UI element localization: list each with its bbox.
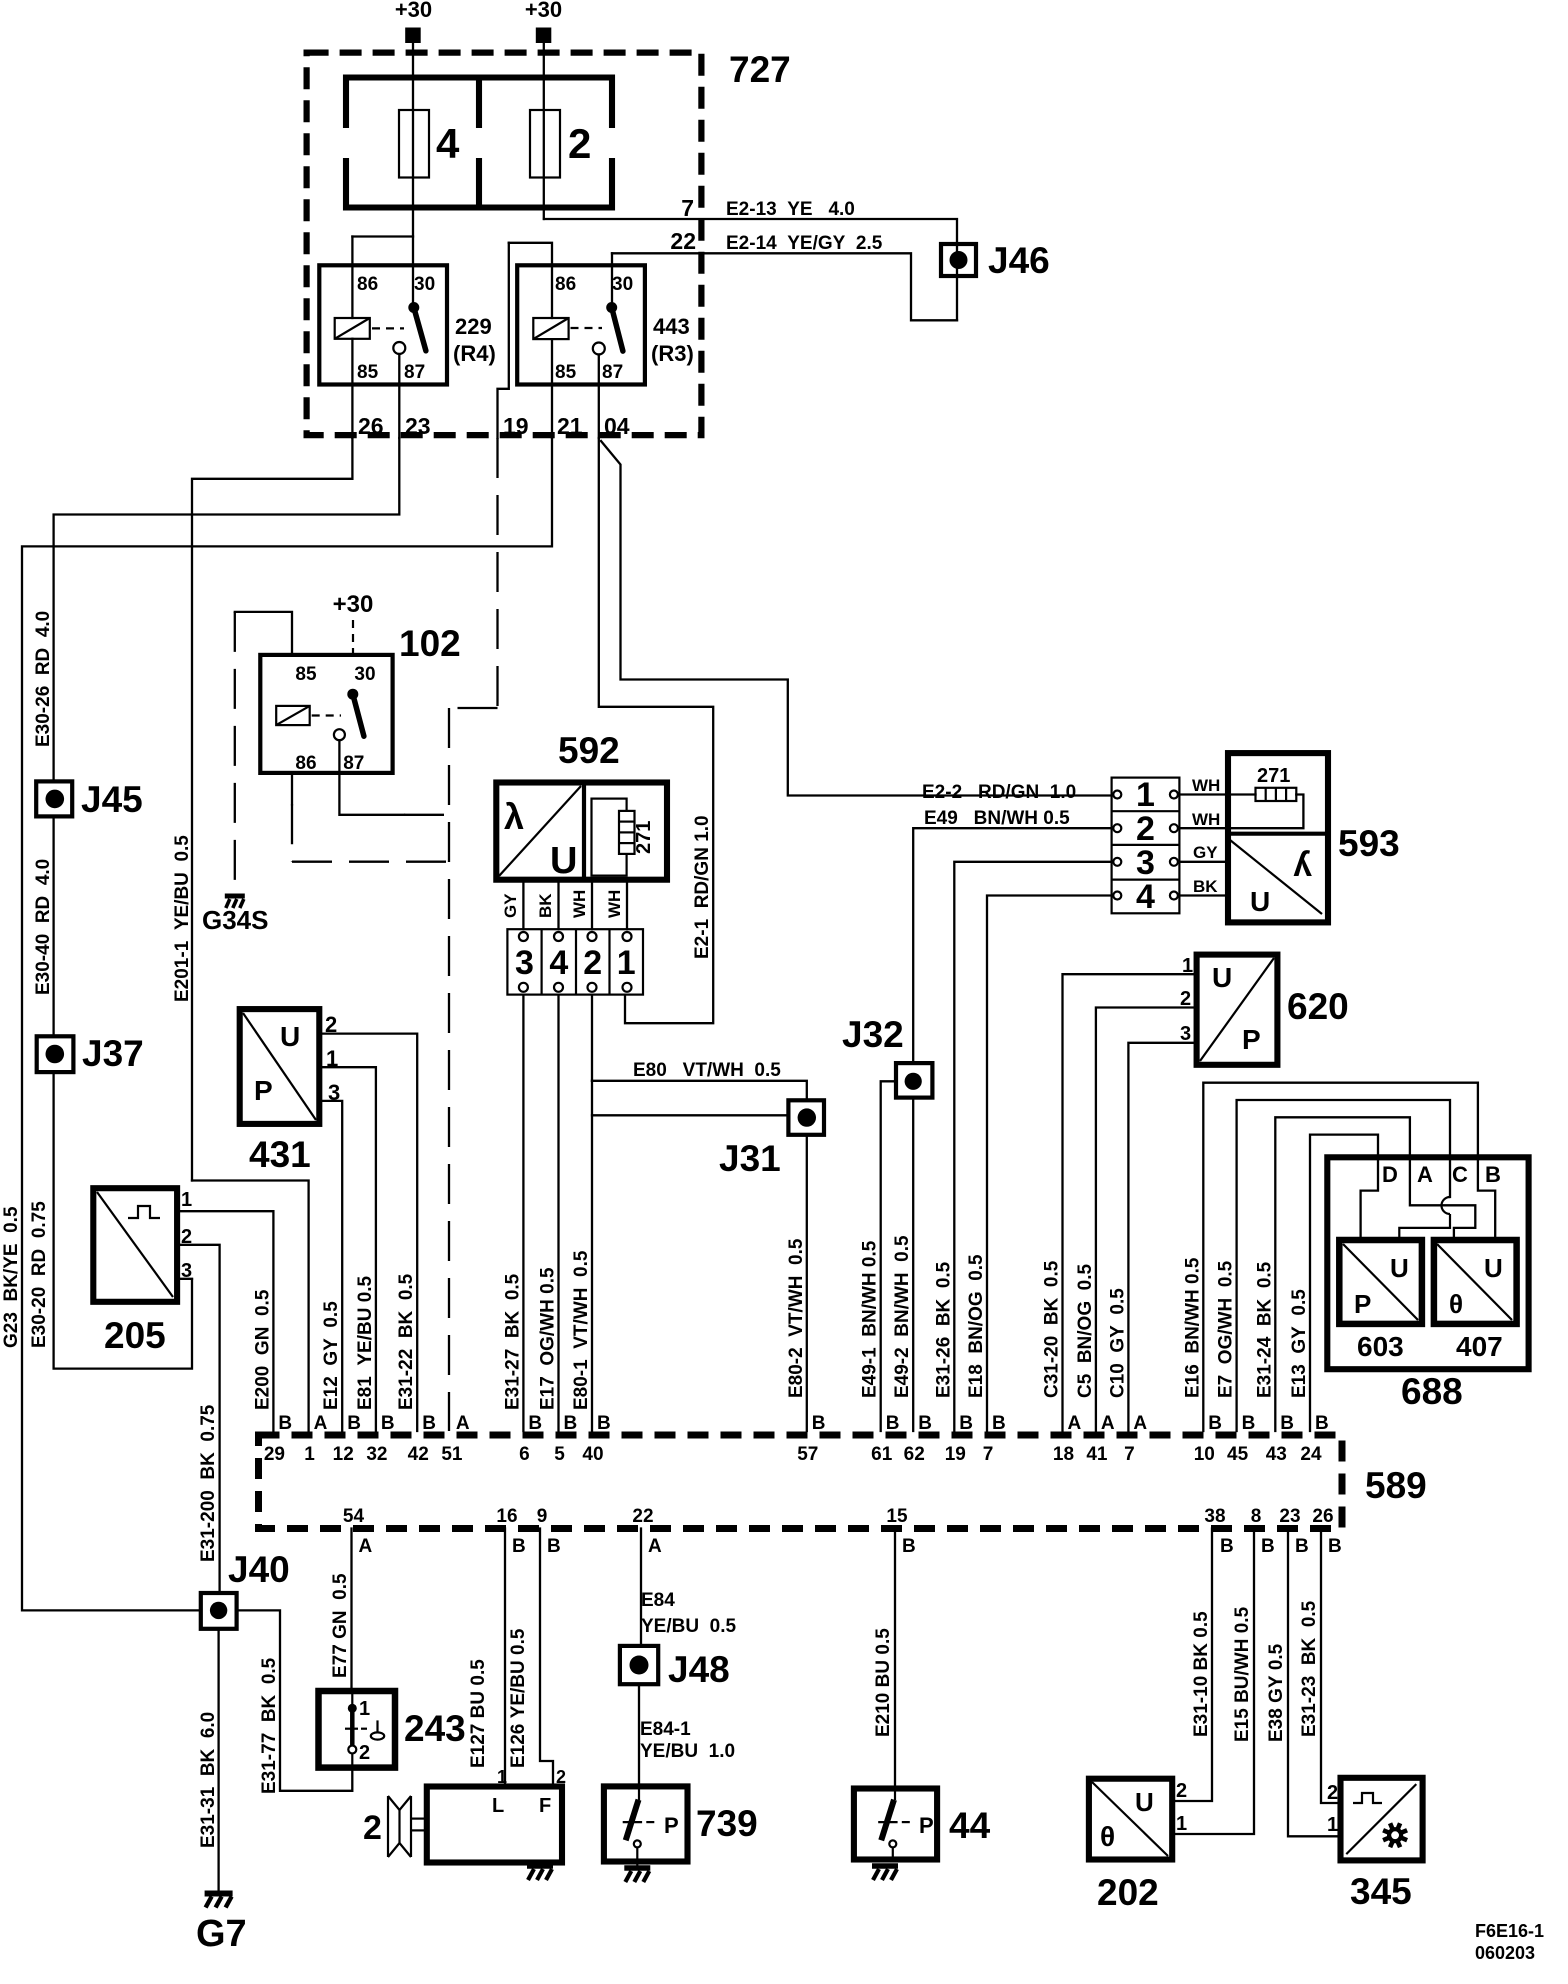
wire 205 pin2 to J40 (E31-200 BK) xyxy=(177,1245,220,1593)
svg-text:E17 OG/WH 0.5: E17 OG/WH 0.5 xyxy=(538,1267,559,1410)
fuse holder box left (fuse 4) xyxy=(346,78,612,129)
relay 443 switch contact xyxy=(606,302,617,313)
svg-text:1: 1 xyxy=(304,1444,315,1465)
wire J31 to ECU 57 (E80-2) xyxy=(806,1135,808,1431)
wire E49 BN/WH 0.5 (J32 to 593 conn pin2) xyxy=(913,828,1111,1063)
345 pulse glyph xyxy=(1353,1793,1382,1803)
592 heater loop xyxy=(592,799,627,876)
svg-text:19: 19 xyxy=(945,1444,966,1465)
svg-text:30: 30 xyxy=(612,274,633,295)
svg-text:U: U xyxy=(1250,886,1270,917)
svg-text:E38 GY 0.5: E38 GY 0.5 xyxy=(1266,1643,1287,1742)
svg-text:GY: GY xyxy=(501,893,520,918)
fuse/relay unit 727 dashed enclosure xyxy=(307,53,702,436)
svg-text:G34S: G34S xyxy=(202,905,269,935)
svg-text:WH: WH xyxy=(1192,776,1220,795)
svg-text:30: 30 xyxy=(354,664,375,685)
svg-text:J45: J45 xyxy=(81,779,143,820)
wire ECU 16 to L (E127 BU 0.5) xyxy=(504,1529,506,1787)
svg-text:E2-2 RD/GN 1.0: E2-2 RD/GN 1.0 xyxy=(922,782,1076,803)
svg-text:J46: J46 xyxy=(988,240,1050,281)
connector J46 xyxy=(941,244,976,276)
svg-text:U: U xyxy=(1135,1787,1154,1817)
593 diagonal xyxy=(1230,840,1322,914)
horn unit box xyxy=(427,1787,562,1863)
svg-text:86: 86 xyxy=(357,274,378,295)
svg-text:5: 5 xyxy=(554,1444,565,1465)
wire 620 pin2 to ECU 41 xyxy=(1096,1008,1197,1432)
svg-text:E31-27 BK 0.5: E31-27 BK 0.5 xyxy=(502,1273,523,1410)
svg-text:7: 7 xyxy=(681,195,694,221)
620 diagonal xyxy=(1200,958,1274,1061)
svg-text:E31-200 BK 0.75: E31-200 BK 0.75 xyxy=(198,1404,219,1562)
fuse 4 element xyxy=(399,110,429,178)
dashed wire pin 19 to ECU pin 51 xyxy=(496,438,498,708)
svg-text:45: 45 xyxy=(1227,1444,1249,1465)
svg-text:E31-77 BK 0.5: E31-77 BK 0.5 xyxy=(259,1657,280,1794)
relay 443 (R3) box xyxy=(517,265,645,384)
svg-text:E15 BU/WH 0.5: E15 BU/WH 0.5 xyxy=(1232,1606,1253,1742)
svg-text:739: 739 xyxy=(696,1803,758,1844)
svg-text:B: B xyxy=(347,1413,361,1434)
speed sensor 205 box xyxy=(93,1188,177,1302)
svg-text:C: C xyxy=(1452,1162,1468,1187)
svg-text:B: B xyxy=(886,1413,900,1434)
svg-text:BK: BK xyxy=(536,893,555,918)
wire 19 inside 727 xyxy=(498,243,509,438)
horn ground xyxy=(539,1863,541,1867)
svg-text:9: 9 xyxy=(537,1506,548,1527)
wire relay229 87 to pin 23 xyxy=(398,354,400,438)
svg-text:E200 GN 0.5: E200 GN 0.5 xyxy=(252,1289,273,1410)
svg-text:P: P xyxy=(919,1813,934,1838)
44 switch symbol xyxy=(894,1789,896,1801)
wire 620 pin3 to ECU 7A xyxy=(1128,1043,1196,1431)
svg-text:54: 54 xyxy=(343,1506,365,1527)
wire 431 pin1 to ECU 32 xyxy=(319,1067,376,1431)
svg-text:593: 593 xyxy=(1338,823,1400,864)
ground G7 xyxy=(205,1891,233,1897)
svg-text:592: 592 xyxy=(558,730,620,771)
svg-text:B: B xyxy=(918,1413,932,1434)
svg-text:J37: J37 xyxy=(82,1033,144,1074)
svg-text:060203: 060203 xyxy=(1475,1943,1535,1963)
wire ECU 22 to J48 (E84 YE/BU 0.5) xyxy=(640,1529,642,1646)
wire E80 VT/WH 0.5 xyxy=(592,1081,807,1101)
svg-text:U: U xyxy=(1212,962,1232,993)
345 snowflake glyph xyxy=(1389,1829,1401,1841)
svg-text:22: 22 xyxy=(632,1506,653,1527)
wire E2-1 RD/GN 1.0 xyxy=(599,438,713,1023)
wire E30-40 RD 4.0 xyxy=(52,817,54,1037)
svg-text:WH: WH xyxy=(1192,810,1220,829)
svg-text:A: A xyxy=(1417,1162,1433,1187)
wire ECU 38 to 202 pin2 (E31-10 BK 0.5) xyxy=(1172,1529,1212,1802)
svg-text:P: P xyxy=(664,1813,679,1838)
svg-text:431: 431 xyxy=(249,1134,311,1175)
svg-text:P: P xyxy=(1354,1289,1371,1319)
592 diagonal xyxy=(499,786,581,876)
svg-text:E31-31 BK 6.0: E31-31 BK 6.0 xyxy=(198,1712,219,1848)
svg-text:(R4): (R4) xyxy=(453,341,496,366)
wire ECU 45 to pin C xyxy=(1237,1100,1450,1431)
svg-text:E84-1: E84-1 xyxy=(640,1719,691,1740)
wire relay443 30 up xyxy=(611,253,613,302)
svg-text:04: 04 xyxy=(604,413,630,439)
svg-text:E31-26 BK 0.5: E31-26 BK 0.5 xyxy=(933,1261,954,1398)
svg-text:E49-2 BN/WH 0.5: E49-2 BN/WH 0.5 xyxy=(892,1235,913,1398)
svg-text:A: A xyxy=(314,1413,328,1434)
svg-text:F6E16-1: F6E16-1 xyxy=(1475,1921,1544,1941)
svg-text:E80-1 VT/WH 0.5: E80-1 VT/WH 0.5 xyxy=(571,1250,592,1410)
wire relay229 30 internal xyxy=(412,265,414,302)
svg-text:B: B xyxy=(1485,1162,1501,1187)
svg-text:B: B xyxy=(992,1413,1006,1434)
592 connector block xyxy=(507,929,643,994)
svg-text:A: A xyxy=(359,1536,373,1557)
svg-text:6: 6 xyxy=(519,1444,530,1465)
593 mirrored lambda glyph xyxy=(1293,846,1312,884)
relay 229 coil xyxy=(335,318,370,339)
592 pigtail wires xyxy=(522,880,524,930)
svg-text:B: B xyxy=(564,1413,578,1434)
svg-text:+30: +30 xyxy=(333,591,374,618)
205 pulse glyph xyxy=(128,1206,160,1218)
svg-text:40: 40 xyxy=(582,1444,603,1465)
wires 592 connector to ECU pins 6,5,40 xyxy=(522,995,524,1431)
svg-text:61: 61 xyxy=(871,1444,893,1465)
svg-text:1: 1 xyxy=(497,1767,507,1787)
wire +30 through fuse 2 xyxy=(543,43,545,219)
svg-text:23: 23 xyxy=(405,413,431,439)
svg-text:C5 BN/OG 0.5: C5 BN/OG 0.5 xyxy=(1075,1263,1096,1398)
svg-text:688: 688 xyxy=(1401,1371,1463,1412)
svg-text:(R3): (R3) xyxy=(651,341,694,366)
wire ECU 24 to pin D xyxy=(1310,1135,1378,1431)
svg-text:86: 86 xyxy=(295,753,316,774)
svg-text:B: B xyxy=(422,1413,436,1434)
svg-text:J31: J31 xyxy=(719,1138,781,1179)
temp sensor 202 box xyxy=(1089,1779,1172,1860)
svg-text:51: 51 xyxy=(441,1444,463,1465)
svg-text:J48: J48 xyxy=(668,1649,730,1690)
svg-text:E16 BN/WH 0.5: E16 BN/WH 0.5 xyxy=(1182,1257,1203,1398)
svg-text:2: 2 xyxy=(359,1742,370,1764)
wire relay443 coil to pin 21 xyxy=(551,339,553,438)
svg-text:271: 271 xyxy=(1257,765,1290,787)
wire ECU 23 to 345 pin1 (E38 GY 0.5) xyxy=(1288,1529,1341,1837)
svg-text:E80-2 VT/WH 0.5: E80-2 VT/WH 0.5 xyxy=(786,1238,807,1398)
wire 431 pin3 to ECU 12 xyxy=(319,1101,342,1431)
svg-text:F: F xyxy=(539,1795,551,1817)
svg-text:2: 2 xyxy=(1176,1780,1187,1802)
relay 443 coil-switch dashed link xyxy=(571,327,603,329)
svg-text:205: 205 xyxy=(104,1315,166,1356)
svg-text:2: 2 xyxy=(556,1767,566,1787)
svg-text:P: P xyxy=(1242,1024,1261,1055)
svg-text:2: 2 xyxy=(1136,810,1155,848)
svg-text:229: 229 xyxy=(455,314,492,339)
ground G34S xyxy=(225,894,245,899)
wire J48 to 739 (E84-1 YE/BU 1.0) xyxy=(638,1684,640,1786)
pressure sensor 620 box xyxy=(1197,955,1278,1065)
svg-text:E7 OG/WH 0.5: E7 OG/WH 0.5 xyxy=(1216,1260,1237,1398)
wire ECU 26 to 345 pin2 (E31-23 BK 0.5) xyxy=(1321,1529,1341,1804)
svg-text:E77 GN 0.5: E77 GN 0.5 xyxy=(330,1573,351,1678)
wire 431 pin2 to ECU 42 xyxy=(319,1034,417,1431)
relay 102 coil xyxy=(276,706,310,725)
connector J32 xyxy=(896,1063,932,1098)
svg-text:A: A xyxy=(648,1536,662,1557)
relay 229 coil-switch dashed link xyxy=(372,327,404,329)
svg-text:E31-24 BK 0.5: E31-24 BK 0.5 xyxy=(1254,1261,1275,1398)
wire J40 to 243 (E31-77 BK 0.5) xyxy=(237,1610,353,1790)
svg-text:U: U xyxy=(280,1021,300,1052)
lambda sensor 593 box xyxy=(1228,753,1328,922)
svg-text:E81 YE/BU 0.5: E81 YE/BU 0.5 xyxy=(355,1275,376,1410)
pressure sensor 431 box xyxy=(240,1009,320,1124)
svg-text:30: 30 xyxy=(414,274,435,295)
wire 86 branch from fuse 4 xyxy=(352,235,413,237)
svg-text:E126 YE/BU 0.5: E126 YE/BU 0.5 xyxy=(508,1628,529,1768)
svg-text:θ: θ xyxy=(1449,1289,1463,1319)
wire E30-20 RD 0.75 to 205 pin3 xyxy=(54,1072,192,1369)
svg-text:19: 19 xyxy=(503,413,529,439)
svg-text:E30-40 RD 4.0: E30-40 RD 4.0 xyxy=(33,859,54,995)
svg-text:B: B xyxy=(1295,1536,1309,1557)
svg-text:22: 22 xyxy=(670,228,696,254)
svg-text:B: B xyxy=(1261,1536,1275,1557)
svg-text:62: 62 xyxy=(904,1444,925,1465)
svg-text:E12 GY 0.5: E12 GY 0.5 xyxy=(321,1301,342,1410)
svg-text:G7: G7 xyxy=(196,1913,247,1955)
svg-text:85: 85 xyxy=(295,664,317,685)
svg-text:23: 23 xyxy=(1279,1506,1300,1527)
svg-text:J32: J32 xyxy=(842,1014,904,1055)
wire relay102 pin85 up-left to G34S xyxy=(235,612,292,655)
svg-text:WH: WH xyxy=(570,890,589,918)
wire 620 pin1 to ECU 18 xyxy=(1063,974,1197,1431)
wire ECU 10 to pin B xyxy=(1203,1083,1495,1431)
svg-text:E49 BN/WH 0.5: E49 BN/WH 0.5 xyxy=(924,808,1070,829)
svg-text:32: 32 xyxy=(366,1444,387,1465)
svg-text:57: 57 xyxy=(797,1444,818,1465)
unit 688 outer box xyxy=(1327,1157,1528,1369)
wire ECU 43 to pin A xyxy=(1275,1117,1475,1431)
svg-text:E2-1 RD/GN 1.0: E2-1 RD/GN 1.0 xyxy=(692,815,713,959)
592 divider xyxy=(582,783,586,880)
593 divider xyxy=(1228,832,1328,836)
svg-text:4: 4 xyxy=(549,944,568,982)
svg-text:2: 2 xyxy=(363,1809,382,1847)
svg-text:21: 21 xyxy=(557,413,583,439)
44 ground xyxy=(872,1863,898,1869)
speaker symbol xyxy=(387,1796,389,1857)
svg-text:443: 443 xyxy=(653,314,690,339)
svg-text:B: B xyxy=(1280,1413,1294,1434)
svg-text:407: 407 xyxy=(1456,1331,1503,1362)
svg-text:B: B xyxy=(1220,1536,1234,1557)
svg-text:B: B xyxy=(1315,1413,1329,1434)
593 heater resistor 271 xyxy=(1256,788,1297,801)
svg-text:1: 1 xyxy=(359,1698,370,1720)
svg-text:102: 102 xyxy=(399,623,461,664)
svg-text:θ: θ xyxy=(1100,1821,1115,1852)
svg-text:15: 15 xyxy=(886,1506,908,1527)
relay 443 coil xyxy=(533,318,568,339)
svg-text:12: 12 xyxy=(333,1444,354,1465)
svg-text:E31-22 BK 0.5: E31-22 BK 0.5 xyxy=(396,1273,417,1410)
svg-text:2: 2 xyxy=(583,944,602,982)
svg-text:+30: +30 xyxy=(525,0,562,22)
svg-text:85: 85 xyxy=(555,362,577,383)
svg-text:YE/BU 1.0: YE/BU 1.0 xyxy=(640,1741,735,1762)
svg-text:1: 1 xyxy=(181,1189,192,1211)
lambda sensor 592 box xyxy=(496,783,667,880)
svg-text:29: 29 xyxy=(264,1444,285,1465)
svg-text:B: B xyxy=(812,1413,826,1434)
svg-text:603: 603 xyxy=(1357,1331,1404,1362)
connector J45 xyxy=(36,781,72,816)
svg-text:B: B xyxy=(597,1413,611,1434)
svg-text:41: 41 xyxy=(1086,1444,1108,1465)
relay 229 (R4) box xyxy=(319,265,447,384)
svg-text:E13 GY 0.5: E13 GY 0.5 xyxy=(1289,1289,1310,1398)
592 heater resistor 271 xyxy=(619,811,635,854)
wire relay102 pin87 to node xyxy=(339,740,404,815)
svg-text:A: A xyxy=(1133,1413,1147,1434)
svg-text:1: 1 xyxy=(1327,1814,1338,1836)
svg-text:B: B xyxy=(512,1536,526,1557)
svg-text:B: B xyxy=(1328,1536,1342,1557)
svg-text:10: 10 xyxy=(1194,1444,1215,1465)
svg-text:E30-20 RD 0.75: E30-20 RD 0.75 xyxy=(29,1201,50,1348)
temp sensor 407 box xyxy=(1434,1240,1517,1324)
svg-text:E201-1 YE/BU 0.5: E201-1 YE/BU 0.5 xyxy=(172,835,193,1002)
svg-text:GY: GY xyxy=(1193,843,1218,862)
wire 205 pin3 stub xyxy=(177,1278,192,1280)
wires 593 conn rows 3,4 to ECU 19,7 xyxy=(954,862,1111,1431)
wire E201-1 to ECU pin 1 xyxy=(192,1181,309,1432)
svg-text:A: A xyxy=(1101,1413,1115,1434)
switch 243 box xyxy=(319,1691,396,1768)
svg-text:42: 42 xyxy=(408,1444,429,1465)
svg-text:P: P xyxy=(254,1075,273,1106)
svg-text:1: 1 xyxy=(1136,776,1155,814)
svg-text:2: 2 xyxy=(568,120,591,167)
431 diagonal xyxy=(243,1013,316,1120)
739 ground xyxy=(624,1865,650,1871)
svg-text:U: U xyxy=(1484,1253,1503,1283)
svg-text:3: 3 xyxy=(1136,844,1155,882)
svg-text:2: 2 xyxy=(1327,1782,1338,1804)
relay 102 dashed link xyxy=(312,714,341,716)
345 diagonal xyxy=(1346,1784,1416,1854)
wire relay443 87 to pin 04 xyxy=(598,355,600,439)
svg-text:YE/BU 0.5: YE/BU 0.5 xyxy=(641,1616,736,1637)
svg-text:1: 1 xyxy=(617,944,636,982)
svg-text:26: 26 xyxy=(358,413,384,439)
svg-text:A: A xyxy=(456,1413,470,1434)
wire pin21 to J40 (G23 BK/YE) xyxy=(22,438,552,1610)
svg-text:4: 4 xyxy=(1136,878,1155,916)
svg-text:243: 243 xyxy=(404,1708,466,1749)
svg-text:7: 7 xyxy=(1124,1444,1135,1465)
svg-text:7: 7 xyxy=(983,1444,994,1465)
svg-text:85: 85 xyxy=(357,362,379,383)
pressure sensor 603 box xyxy=(1339,1240,1422,1324)
svg-text:C31-20 BK 0.5: C31-20 BK 0.5 xyxy=(1042,1260,1063,1398)
svg-text:B: B xyxy=(1242,1413,1256,1434)
wire ECU 54 to 243 (E77 GN 0.5) xyxy=(350,1529,352,1692)
AC compressor unit 345 box xyxy=(1341,1778,1423,1861)
svg-text:E127 BU 0.5: E127 BU 0.5 xyxy=(468,1659,489,1768)
svg-text:A: A xyxy=(1068,1413,1082,1434)
wire relay102 pin86 dashed to node xyxy=(291,773,293,804)
relay 229 switch contact xyxy=(408,302,419,313)
svg-text:D: D xyxy=(1382,1162,1398,1187)
205 diagonal xyxy=(97,1192,173,1297)
connector J40 xyxy=(201,1593,237,1629)
wire 205 pin1 to ECU 29 (E200 GN) xyxy=(177,1211,273,1431)
svg-text:44: 44 xyxy=(949,1805,991,1846)
svg-text:C10 GY 0.5: C10 GY 0.5 xyxy=(1107,1288,1128,1398)
pressure switch 44 box xyxy=(854,1789,937,1860)
svg-text:87: 87 xyxy=(343,753,364,774)
svg-text:87: 87 xyxy=(602,362,623,383)
svg-text:E18 BN/OG 0.5: E18 BN/OG 0.5 xyxy=(966,1254,987,1398)
svg-text:BK: BK xyxy=(1193,877,1218,896)
svg-text:B: B xyxy=(902,1536,916,1557)
relay 102 switch xyxy=(347,689,358,700)
svg-text:727: 727 xyxy=(729,49,791,90)
wire ECU 9 to F (E126 YE/BU 0.5) xyxy=(540,1529,553,1787)
svg-text:43: 43 xyxy=(1266,1444,1287,1465)
svg-text:B: B xyxy=(547,1536,561,1557)
wire relay229 coil to pin 26 xyxy=(351,339,353,438)
engine control module 589 dashed box xyxy=(259,1435,1343,1529)
svg-text:86: 86 xyxy=(555,274,576,295)
pressure switch 739 box xyxy=(604,1786,688,1861)
svg-text:WH: WH xyxy=(605,890,624,918)
svg-text:8: 8 xyxy=(1251,1506,1262,1527)
svg-text:B: B xyxy=(959,1413,973,1434)
svg-text:1: 1 xyxy=(1176,1813,1187,1835)
svg-text:U: U xyxy=(550,840,577,882)
svg-text:U: U xyxy=(1390,1253,1409,1283)
svg-text:+30: +30 xyxy=(395,0,432,22)
wire E2-13 YE 4.0 (fuse 2 to J46) xyxy=(544,219,957,320)
wire J31 to ECU 40 branch xyxy=(592,1114,788,1116)
pin C hop and continuation xyxy=(1442,1197,1451,1214)
svg-text:E210 BU 0.5: E210 BU 0.5 xyxy=(873,1628,894,1737)
svg-text:E31-23 BK 0.5: E31-23 BK 0.5 xyxy=(1299,1600,1320,1737)
svg-text:38: 38 xyxy=(1204,1506,1225,1527)
svg-text:B: B xyxy=(528,1413,542,1434)
svg-text:26: 26 xyxy=(1312,1506,1333,1527)
wire pin26 to E201-1 column xyxy=(192,438,352,1181)
connector J31 xyxy=(788,1100,824,1135)
svg-text:345: 345 xyxy=(1350,1871,1412,1912)
593 connector block xyxy=(1112,778,1180,914)
svg-text:L: L xyxy=(492,1795,504,1817)
wire E2-2 RD/GN 1.0 xyxy=(601,441,1112,796)
svg-text:B: B xyxy=(278,1413,292,1434)
connector J48 xyxy=(620,1646,658,1684)
connector J37 xyxy=(37,1036,74,1072)
svg-text:B: B xyxy=(381,1413,395,1434)
relay 102 box xyxy=(260,655,392,773)
